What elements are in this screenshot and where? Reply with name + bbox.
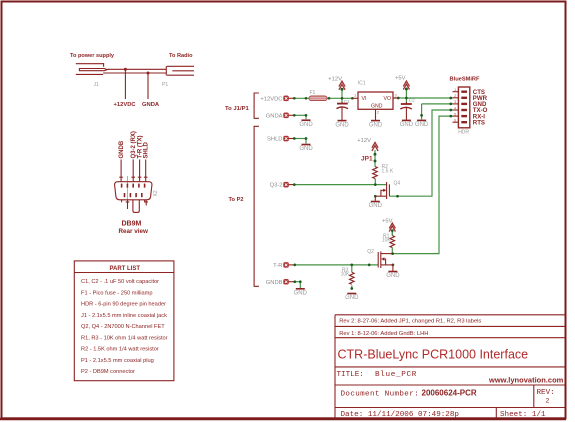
svg-text:PART LIST: PART LIST [110,266,141,272]
svg-text:C2: C2 [409,98,415,103]
svg-text:C1: C1 [344,99,350,104]
svg-text:GNDB: GNDB [266,280,283,286]
svg-text:+12V: +12V [357,138,371,144]
svg-text:T-R: T-R [273,263,282,269]
svg-text:www.lynovation.com: www.lynovation.com [488,376,564,385]
svg-text:Rear view: Rear view [119,228,149,235]
svg-text:J1: J1 [94,82,100,88]
svg-text:Rev 1: 8-12-06: Added GndB: LH: Rev 1: 8-12-06: Added GndB: LHH [339,331,428,337]
svg-text:F1 - Pico fuse - 250 milliamp: F1 - Pico fuse - 250 milliamp [81,290,152,296]
svg-text:2: 2 [546,398,550,405]
svg-text:J1 - 2.1x5.5 mm inline coaxial: J1 - 2.1x5.5 mm inline coaxial jack [81,313,167,319]
svg-text:GND: GND [299,146,313,152]
svg-text:GNDB: GNDB [119,140,125,158]
svg-text:VO: VO [384,96,392,102]
svg-text:CTR-BlueLync PCR1000 Interface: CTR-BlueLync PCR1000 Interface [338,348,529,362]
svg-text:RTS: RTS [473,119,485,126]
svg-text:GND: GND [369,203,383,209]
svg-text:GND: GND [299,122,313,128]
svg-text:TITLE:: TITLE: [337,371,364,379]
svg-text:VI: VI [362,96,367,102]
svg-text:REV:: REV: [537,389,555,397]
svg-text:C1, C2 - .1 uF 50 volt capacit: C1, C2 - .1 uF 50 volt capacitor [81,279,159,285]
svg-text:P2 - DB9M connector: P2 - DB9M connector [81,369,135,375]
svg-text:SHLD: SHLD [267,137,282,143]
svg-text:P1 - 2.1x5.5 mm coaxial plug: P1 - 2.1x5.5 mm coaxial plug [81,358,154,364]
svg-text:SHLD: SHLD [144,142,150,159]
svg-text:GNDA: GNDA [266,113,283,119]
svg-text:IC1: IC1 [358,81,366,87]
svg-text:+12VDC: +12VDC [260,96,282,102]
svg-text:HDR: HDR [458,129,469,135]
svg-text:JP1: JP1 [361,156,373,163]
svg-text:GND: GND [369,122,383,128]
svg-text:R1, R3 - 10K ohm 1/4 watt resi: R1, R3 - 10K ohm 1/4 watt resistor [81,335,168,341]
svg-text:P1: P1 [162,82,168,88]
svg-text:Document Number:: Document Number: [341,391,420,399]
svg-text:GND: GND [400,122,414,128]
svg-text:Q2: Q2 [367,249,374,255]
svg-text:+5V: +5V [395,76,406,82]
svg-text:To Radio: To Radio [169,53,193,59]
svg-text:GNDA: GNDA [142,102,160,108]
svg-text:To P2: To P2 [229,197,244,203]
svg-text:Q4: Q4 [394,180,401,186]
svg-text:BlueSMiRF: BlueSMiRF [450,77,481,83]
svg-text:Q3-2: Q3-2 [270,183,283,189]
svg-text:To power supply: To power supply [70,53,115,59]
svg-text:Q3-2 (RX): Q3-2 (RX) [131,131,137,158]
svg-text:10K: 10K [382,238,392,244]
svg-text:GND: GND [415,122,429,128]
svg-text:T-R (TX): T-R (TX) [137,136,143,159]
svg-text:1.5 K: 1.5 K [382,169,394,175]
svg-text:X2: X2 [153,190,159,196]
svg-text:GND: GND [386,273,400,279]
svg-text:GND: GND [335,122,349,128]
svg-text:+5V: +5V [382,219,393,225]
svg-text:DB9M: DB9M [122,221,142,228]
svg-text:Q2, Q4 - 2N7000 N-Channel FET: Q2, Q4 - 2N7000 N-Channel FET [81,324,165,330]
svg-text:GND: GND [345,295,359,301]
svg-text:GND: GND [294,291,308,297]
svg-text:Date: 11/11/2006 07:49:28p: Date: 11/11/2006 07:49:28p [341,411,460,419]
svg-text:+12V: +12V [328,77,342,83]
svg-text:Sheet: 1/1: Sheet: 1/1 [500,411,546,419]
svg-text:+12VDC: +12VDC [114,102,137,108]
svg-text:R2 - 1.5K ohm 1/4 watt resisto: R2 - 1.5K ohm 1/4 watt resistor [81,347,159,353]
svg-text:Blue_PCR: Blue_PCR [375,371,417,379]
svg-text:F1: F1 [310,90,316,96]
svg-text:HDR - 6-pin 90 degree pin head: HDR - 6-pin 90 degree pin header [81,302,166,308]
svg-text:To J1/P1: To J1/P1 [225,106,250,112]
svg-text:20060624-PCR: 20060624-PCR [422,389,477,398]
svg-text:10K: 10K [341,271,351,277]
svg-text:Rev 2: 8-27-06: Added JP1, cha: Rev 2: 8-27-06: Added JP1, changed R1, R… [339,319,481,325]
